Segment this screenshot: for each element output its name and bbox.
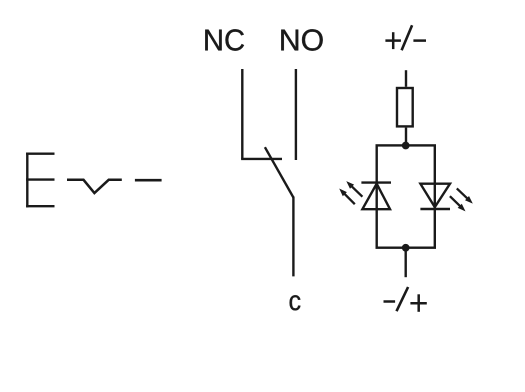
label +/- plus sign bbox=[385, 32, 401, 49]
manual actuator E symbol bbox=[26, 153, 54, 208]
label c bbox=[290, 295, 301, 310]
LED D1 triangle bbox=[362, 184, 390, 210]
label NC bbox=[205, 29, 244, 50]
LED D1 cathode bar bbox=[361, 181, 391, 183]
label +/- slash bbox=[402, 25, 413, 50]
mechanical linkage with detent (zigzag) bbox=[67, 180, 122, 193]
wire common terminal bbox=[292, 197, 294, 277]
LED D2 triangle bbox=[420, 184, 450, 207]
mechanical linkage dash bbox=[135, 179, 162, 182]
wire NC terminal bbox=[241, 69, 243, 159]
node top junction dot bbox=[402, 142, 410, 150]
LED D2 cathode bar bbox=[420, 208, 450, 210]
switch lever (changeover contact) bbox=[265, 147, 294, 197]
label -/+ slash bbox=[397, 287, 409, 311]
label -/+ minus sign bbox=[384, 300, 396, 303]
LED bridge box bbox=[377, 145, 435, 247]
LED D1 emission arrows bbox=[339, 181, 362, 204]
wire from +/- to resistor bbox=[405, 70, 407, 87]
wire resistor to node bbox=[405, 128, 407, 146]
label NO bbox=[281, 29, 322, 50]
node bottom junction dot bbox=[402, 244, 410, 252]
NC contact bar bbox=[241, 158, 282, 160]
label -/+ plus sign bbox=[410, 294, 426, 312]
wire bottom node to -/+ bbox=[405, 248, 407, 278]
LED D2 emission arrows bbox=[450, 188, 473, 211]
label +/- minus sign bbox=[413, 39, 426, 42]
resistor R bbox=[397, 88, 413, 126]
wire NO terminal bbox=[295, 69, 297, 160]
